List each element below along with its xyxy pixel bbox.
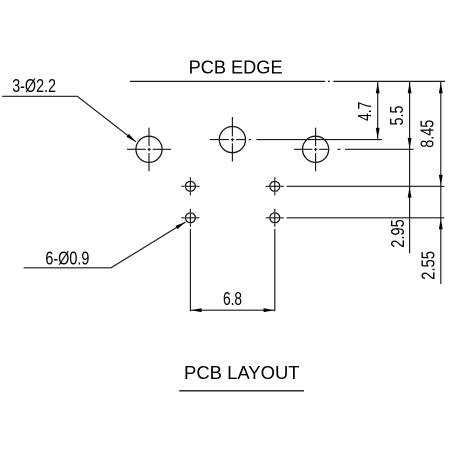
svg-text:6.8: 6.8 [223, 288, 242, 309]
svg-text:5.5: 5.5 [386, 106, 407, 126]
svg-text:2.55: 2.55 [417, 251, 438, 280]
svg-text:4.7: 4.7 [354, 102, 375, 121]
svg-text:PCB LAYOUT: PCB LAYOUT [184, 362, 300, 383]
svg-text:8.45: 8.45 [417, 120, 438, 148]
svg-text:3-Ø2.2: 3-Ø2.2 [12, 75, 56, 96]
svg-text:6-Ø0.9: 6-Ø0.9 [45, 247, 89, 268]
svg-text:PCB EDGE: PCB EDGE [189, 56, 283, 77]
svg-text:2.95: 2.95 [387, 219, 408, 247]
